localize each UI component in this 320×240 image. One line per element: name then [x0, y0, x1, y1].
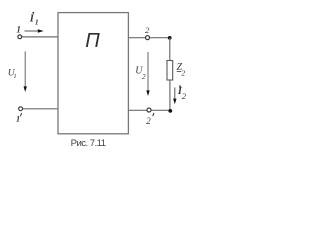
wire: box to terminal 2' junction [128, 109, 170, 111]
two-port network box П [58, 13, 128, 134]
junction dot bottom [168, 109, 172, 113]
impedance Z2 [167, 61, 173, 81]
wire: box to node 2 junction [128, 37, 169, 39]
terminal 1 [18, 35, 22, 39]
svg-text:П: П [85, 30, 100, 52]
wire: terminal 1 to box [22, 36, 58, 38]
label U2 [135, 66, 146, 81]
voltage arrow U2 [146, 52, 149, 96]
svg-text:1: 1 [16, 25, 21, 35]
wire: Z2 down to bottom junction [169, 80, 171, 111]
label U1 [8, 67, 17, 80]
svg-text:Рис. 7.11: Рис. 7.11 [71, 138, 106, 149]
junction dot top [168, 36, 172, 40]
label İ1 [29, 12, 39, 27]
label İ2 [177, 85, 187, 101]
terminal 2' [147, 108, 151, 112]
svg-text:2: 2 [142, 73, 146, 81]
voltage arrow U1 [24, 51, 27, 92]
svg-text:2: 2 [182, 91, 187, 101]
wire: terminal 1' to box [23, 108, 58, 110]
svg-text:1: 1 [16, 113, 20, 123]
svg-text:2: 2 [145, 25, 150, 35]
terminal 2 [146, 36, 150, 40]
current arrow I2 [173, 88, 176, 105]
svg-text:2: 2 [146, 116, 151, 126]
svg-text:2: 2 [181, 68, 185, 77]
svg-text:1: 1 [13, 73, 16, 80]
svg-text:1: 1 [35, 19, 39, 27]
current arrow I1 [25, 29, 44, 32]
label Z2 [177, 62, 186, 77]
wire: junction down to Z2 [169, 38, 171, 61]
svg-text:I: I [29, 14, 35, 25]
terminal 1' [19, 107, 23, 111]
